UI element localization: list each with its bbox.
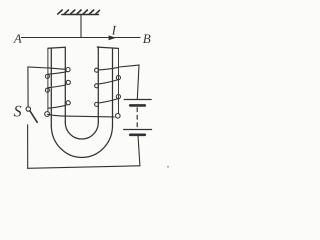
hanger rod <box>80 15 82 38</box>
wire from coil to battery <box>119 65 140 67</box>
right coil turn wires <box>99 67 119 103</box>
horseshoe core right leg inner edge <box>97 47 99 123</box>
battery cell 2 short plate <box>130 134 145 137</box>
node label B <box>143 34 151 43</box>
right coil wrap loops <box>95 68 121 118</box>
switch S pivot <box>26 107 30 111</box>
horseshoe core outer bend arc <box>51 126 112 158</box>
wire from coil to left branch <box>28 67 48 68</box>
paper speck <box>167 166 169 168</box>
current arrow on wire AB <box>109 35 116 40</box>
battery cell 1 long plate <box>124 99 151 101</box>
switch S blade <box>30 111 37 123</box>
horseshoe core left leg outer edge <box>50 49 52 126</box>
wire AB <box>22 37 141 39</box>
battery feed wire <box>137 65 139 100</box>
right branch wire lower <box>138 135 140 166</box>
left branch wire lower <box>27 125 29 169</box>
right coil side bus wire <box>118 49 120 114</box>
battery cell 2 long plate <box>124 129 152 131</box>
left coil side bus wire <box>47 48 49 111</box>
battery cell 1 short plate <box>130 104 145 107</box>
bottom wire <box>28 166 140 169</box>
ceiling hatch marks <box>58 10 100 14</box>
node label A <box>13 34 21 42</box>
ceiling line <box>62 14 99 16</box>
horseshoe core right leg outer edge <box>112 49 114 126</box>
coil interconnect wire <box>48 114 115 117</box>
horseshoe core left leg top cap <box>48 47 65 48</box>
left coil wrap loops <box>45 68 71 117</box>
left branch wire upper <box>27 67 29 107</box>
switch label S <box>14 106 22 117</box>
left coil turn wires <box>48 68 66 108</box>
horseshoe core right leg top cap <box>97 47 118 48</box>
horseshoe core inner bend arc <box>65 123 98 140</box>
horseshoe core left leg inner edge <box>64 47 66 122</box>
current label I <box>112 26 117 35</box>
battery dashed link <box>136 108 138 127</box>
